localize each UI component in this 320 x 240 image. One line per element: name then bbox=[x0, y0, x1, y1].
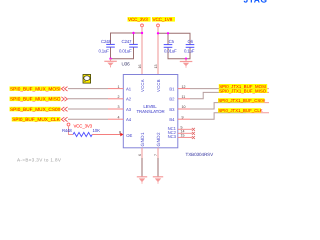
svg-text:0.01uF: 0.01uF bbox=[164, 48, 177, 53]
svg-text:10K: 10K bbox=[93, 128, 101, 133]
junction C5 top bbox=[167, 32, 169, 34]
net label SPI0_BUF_MUX_CS0# bbox=[10, 107, 61, 112]
svg-text:VCC_1V8: VCC_1V8 bbox=[153, 17, 173, 22]
wire R448 to OE pin bbox=[92, 134, 121, 136]
svg-text:B4: B4 bbox=[169, 117, 175, 122]
svg-text:1: 1 bbox=[118, 85, 120, 89]
OE pin arrowhead bbox=[120, 133, 123, 137]
svg-text:2: 2 bbox=[118, 95, 120, 99]
svg-text:4: 4 bbox=[118, 115, 120, 119]
svg-text:B1: B1 bbox=[169, 86, 175, 91]
svg-text:6: 6 bbox=[138, 154, 142, 156]
ground GND2 bbox=[153, 177, 163, 184]
capacitor C247 bbox=[119, 39, 138, 53]
svg-text:A->B=3.3V to 1.8V: A->B=3.3V to 1.8V bbox=[17, 158, 62, 163]
svg-text:B2: B2 bbox=[169, 97, 175, 102]
pin stub NC3 bbox=[178, 136, 192, 138]
svg-text:A2: A2 bbox=[126, 97, 132, 102]
svg-text:OE: OE bbox=[126, 133, 132, 138]
wire VCC_1V8 vertical to VCCB pin13 bbox=[157, 27, 159, 75]
svg-text:C247: C247 bbox=[122, 39, 132, 44]
svg-text:A3: A3 bbox=[126, 107, 132, 112]
wire B3 jog to SPI0_JTX1_BUF_CS0# bbox=[178, 108, 190, 110]
svg-text:VCCB: VCCB bbox=[156, 79, 161, 92]
ground left cap group bbox=[104, 59, 117, 68]
wire pullup vertical bbox=[69, 126, 74, 135]
IC U36 box bbox=[123, 75, 178, 148]
net label SPI0_BUF_MUX_CLK bbox=[12, 117, 61, 122]
wire B4 jog to SPI0_JTX1_BUF_CLK bbox=[178, 118, 190, 120]
power net VCC_1V8 label bbox=[152, 17, 175, 22]
wire GND1 vertical bbox=[141, 148, 143, 158]
svg-text:SPI0_BUF_MUX_CS0#: SPI0_BUF_MUX_CS0# bbox=[10, 107, 61, 112]
svg-text:SPI0_JTX1_BUF_CLK: SPI0_JTX1_BUF_CLK bbox=[218, 108, 262, 113]
svg-text:C248: C248 bbox=[101, 39, 111, 44]
svg-text:R448: R448 bbox=[62, 128, 72, 133]
power symbol VCC_3V3 bbox=[141, 24, 144, 27]
svg-text:C6: C6 bbox=[188, 39, 194, 44]
svg-text:11: 11 bbox=[182, 95, 186, 99]
pin stub NC1 bbox=[178, 128, 192, 130]
svg-text:C5: C5 bbox=[169, 39, 175, 44]
svg-text:A1: A1 bbox=[126, 86, 132, 91]
no-connect X NC1 bbox=[192, 128, 195, 131]
port chevron in (row1) bbox=[61, 87, 67, 91]
no-connect X NC3 bbox=[192, 136, 195, 139]
svg-text:0.1uF: 0.1uF bbox=[99, 48, 110, 53]
svg-text:SPI0_JTX1_BUF_MISO: SPI0_JTX1_BUF_MISO bbox=[219, 89, 267, 94]
power symbol VCC_1V8 bbox=[157, 24, 160, 27]
net label SPI0_BUF_MUX_MOSI bbox=[10, 86, 61, 91]
svg-text:TXB0304RSV: TXB0304RSV bbox=[186, 152, 215, 157]
net label SPI0_JTX1_BUF_CLK bbox=[218, 108, 263, 113]
svg-text:8: 8 bbox=[119, 130, 121, 134]
capacitor C6 bbox=[184, 39, 195, 53]
svg-text:0.1uF: 0.1uF bbox=[184, 48, 195, 53]
capacitor C5 bbox=[164, 39, 177, 53]
svg-text:10: 10 bbox=[182, 105, 186, 109]
svg-text:15: 15 bbox=[181, 134, 185, 138]
note icon (speech bubble) bbox=[83, 75, 91, 84]
svg-text:SPI0_JTX1_BUF_CS0#: SPI0_JTX1_BUF_CS0# bbox=[218, 98, 265, 103]
wire A3 row bbox=[68, 108, 108, 110]
wire cap loop right (C5/C6 rails) bbox=[158, 33, 190, 58]
resistor R448 bbox=[62, 128, 100, 137]
wire B1 row to SPI0_JTX1_BUF_MOSI bbox=[178, 88, 190, 90]
capacitor C248 bbox=[99, 39, 115, 53]
port chevron in (row3) bbox=[61, 107, 67, 111]
svg-text:U36: U36 bbox=[122, 62, 131, 67]
junction VCC_3V3 rail bbox=[141, 32, 143, 34]
svg-text:VCCA: VCCA bbox=[140, 79, 145, 92]
junction C247 top bbox=[132, 32, 134, 34]
svg-text:16: 16 bbox=[138, 65, 142, 69]
svg-text:0.01uF: 0.01uF bbox=[119, 48, 132, 53]
power symbol VCC_3V3 (pullup) bbox=[67, 123, 70, 126]
junction VCC_1V8 rail bbox=[157, 32, 159, 34]
net label SPI0_JTX1_BUF_CS0# bbox=[218, 98, 266, 103]
svg-text:JTAG: JTAG bbox=[244, 0, 268, 4]
wire A1 row bbox=[68, 88, 108, 90]
pin stub NC2 bbox=[178, 132, 192, 134]
IC body text bbox=[136, 104, 164, 114]
svg-text:NC3: NC3 bbox=[168, 134, 177, 139]
svg-text:A4: A4 bbox=[126, 117, 132, 122]
junction left ground tap bbox=[109, 58, 111, 60]
no-connect X NC2 bbox=[192, 132, 195, 135]
svg-text:SPI0_BUF_MUX_CLK: SPI0_BUF_MUX_CLK bbox=[12, 117, 61, 122]
svg-text:12: 12 bbox=[182, 85, 186, 89]
svg-text:SPI0_BUF_MUX_MOSI: SPI0_BUF_MUX_MOSI bbox=[10, 87, 61, 92]
port chevron out (row2) bbox=[61, 97, 67, 101]
svg-text:9: 9 bbox=[182, 115, 184, 119]
svg-text:7: 7 bbox=[154, 154, 158, 156]
wire B2 jog to SPI0_JTX1_BUF_MISO bbox=[178, 98, 190, 100]
wire VCC_3V3 vertical to VCCA pin16 bbox=[141, 27, 143, 75]
ground GND1 bbox=[137, 177, 147, 184]
svg-text:TRANSLATOR: TRANSLATOR bbox=[136, 109, 164, 114]
svg-text:SPI0_BUF_MUX_MISO: SPI0_BUF_MUX_MISO bbox=[10, 97, 61, 102]
port chevron in (row4) bbox=[61, 117, 67, 121]
svg-text:VCC_3V3: VCC_3V3 bbox=[74, 124, 93, 129]
svg-text:B3: B3 bbox=[169, 107, 175, 112]
power net VCC_3V3 label bbox=[128, 17, 151, 22]
svg-text:3: 3 bbox=[118, 105, 120, 109]
wire cap loop left (C248/C247 rails) bbox=[111, 33, 143, 59]
junction right ground tap bbox=[185, 58, 187, 60]
wire A4 row bbox=[68, 118, 108, 120]
net label SPI0_JTX1_BUF_MISO bbox=[219, 89, 267, 94]
svg-text:VCC_3V3: VCC_3V3 bbox=[128, 17, 148, 22]
ground right cap group bbox=[180, 59, 193, 68]
net label SPI0_BUF_MUX_MISO bbox=[10, 97, 61, 102]
net label SPI0_JTX1_BUF_MOSI bbox=[219, 84, 267, 89]
svg-text:GND2: GND2 bbox=[156, 132, 161, 147]
wire A2 row bbox=[68, 98, 108, 100]
svg-text:13: 13 bbox=[154, 65, 158, 69]
wire GND2 vertical bbox=[157, 148, 159, 158]
svg-text:GND1: GND1 bbox=[140, 132, 145, 147]
